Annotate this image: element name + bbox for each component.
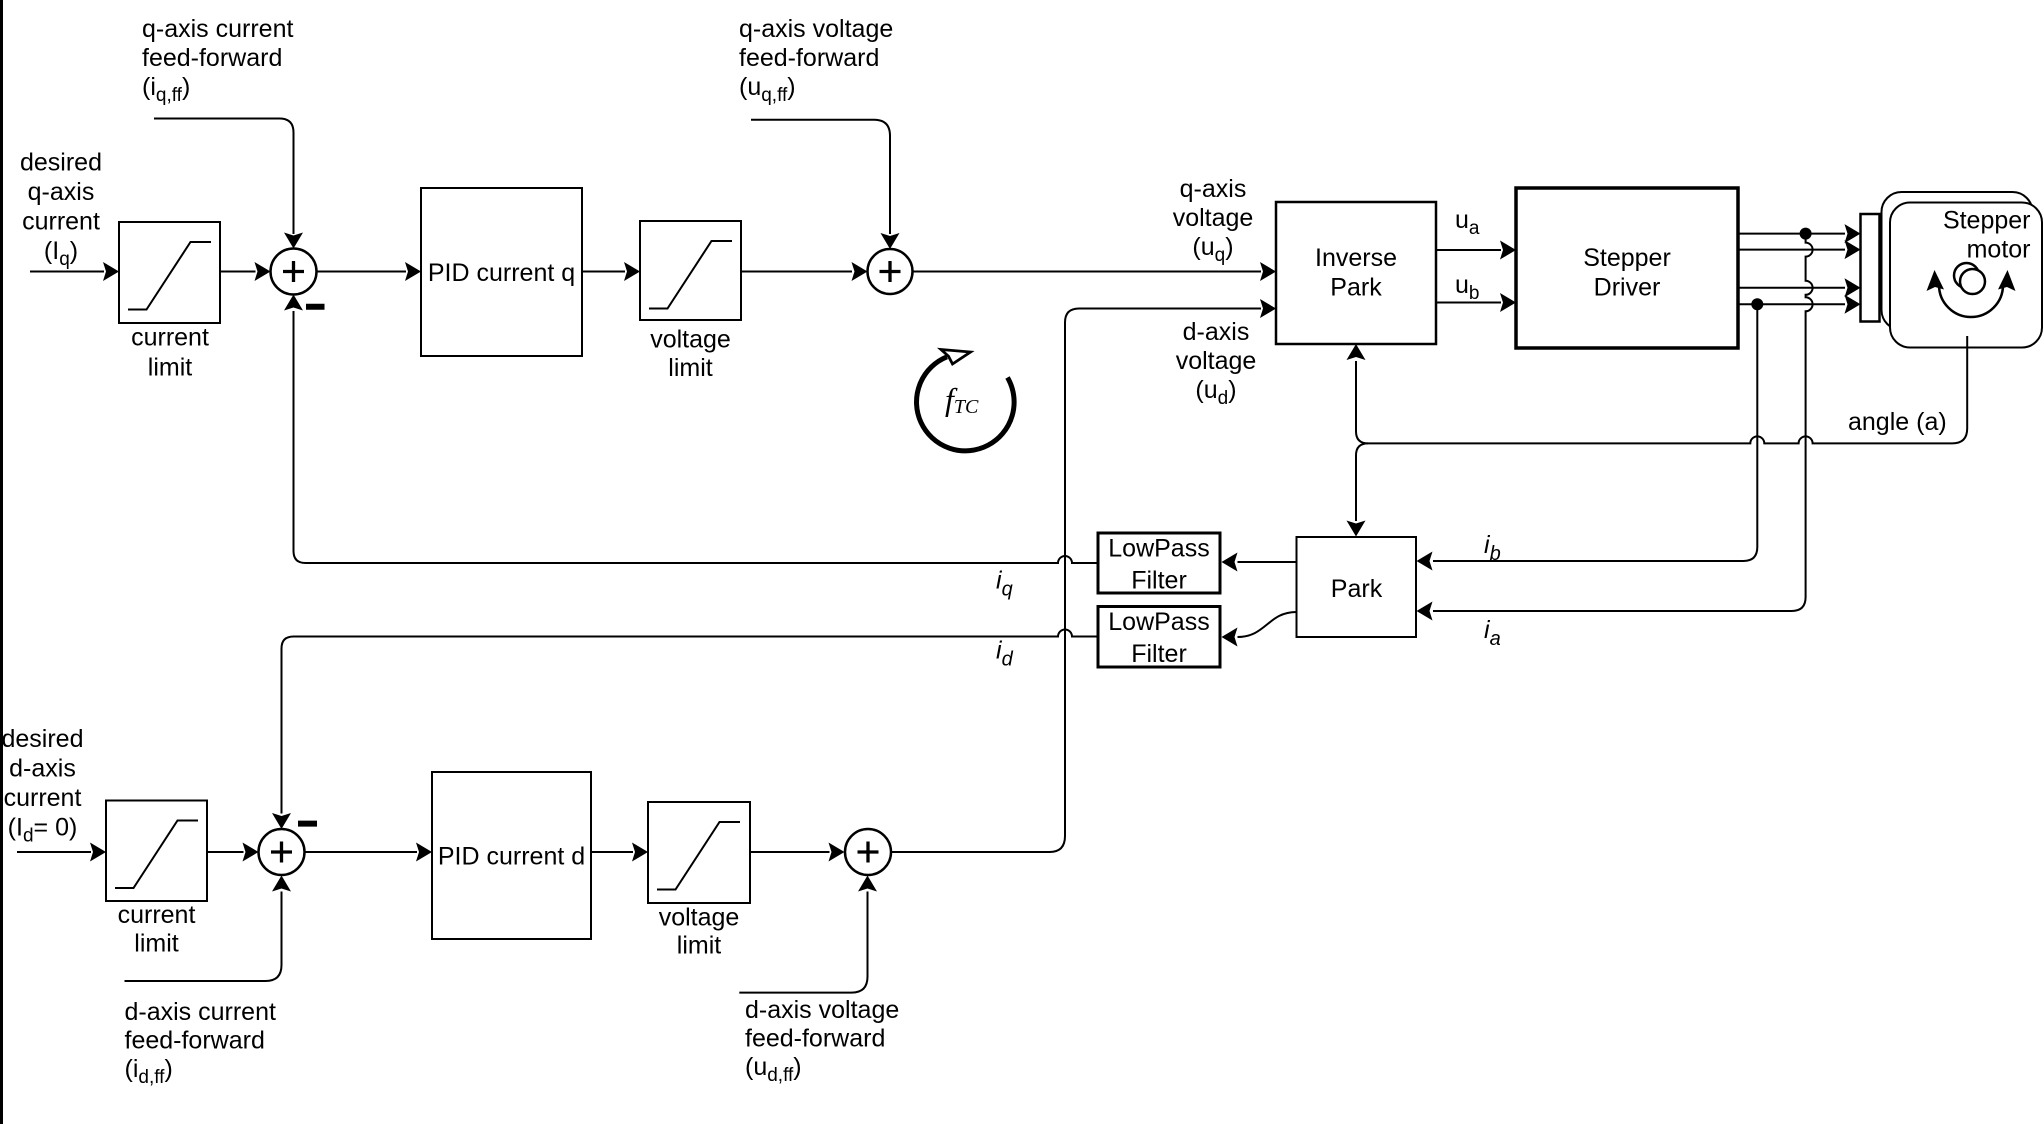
svg-text:Inverse: Inverse (1315, 244, 1397, 272)
svg-text:q-axis current: q-axis current (142, 15, 293, 43)
svg-text:q-axis: q-axis (28, 178, 95, 206)
svg-text:current: current (22, 208, 100, 236)
svg-text:Stepper: Stepper (1943, 207, 2031, 235)
svg-text:desired: desired (2, 725, 84, 753)
svg-text:Park: Park (1331, 575, 1383, 603)
svg-text:d-axis voltage: d-axis voltage (745, 996, 899, 1024)
svg-text:limit: limit (677, 932, 721, 960)
svg-text:d-axis current: d-axis current (125, 998, 276, 1026)
svg-text:PID current q: PID current q (428, 259, 575, 287)
svg-text:feed-forward: feed-forward (142, 44, 282, 72)
svg-text:q-axis: q-axis (1180, 175, 1247, 203)
svg-text:limit: limit (134, 930, 178, 958)
svg-text:feed-forward: feed-forward (745, 1025, 885, 1053)
svg-text:q-axis voltage: q-axis voltage (739, 15, 893, 43)
svg-text:Stepper: Stepper (1583, 244, 1671, 272)
svg-text:limit: limit (148, 354, 192, 382)
svg-text:current: current (4, 784, 82, 812)
svg-text:d-axis: d-axis (9, 755, 76, 783)
svg-text:current: current (131, 324, 209, 352)
svg-text:voltage: voltage (1176, 347, 1257, 375)
svg-text:voltage: voltage (650, 326, 731, 354)
svg-text:Filter: Filter (1131, 567, 1187, 595)
svg-text:Driver: Driver (1594, 274, 1661, 302)
svg-text:angle (a): angle (a) (1848, 408, 1947, 436)
svg-text:current: current (118, 901, 196, 929)
svg-text:Filter: Filter (1131, 640, 1187, 668)
svg-text:voltage: voltage (1173, 204, 1254, 232)
svg-text:limit: limit (668, 354, 712, 382)
svg-text:desired: desired (20, 149, 102, 177)
svg-text:LowPass: LowPass (1108, 608, 1209, 636)
svg-text:feed-forward: feed-forward (739, 44, 879, 72)
svg-text:Park: Park (1330, 274, 1382, 302)
svg-text:LowPass: LowPass (1108, 535, 1209, 563)
svg-text:PID current d: PID current d (438, 843, 585, 871)
svg-text:motor: motor (1967, 235, 2031, 263)
svg-text:feed-forward: feed-forward (125, 1027, 265, 1055)
svg-text:d-axis: d-axis (1183, 318, 1250, 346)
svg-text:voltage: voltage (659, 904, 740, 932)
